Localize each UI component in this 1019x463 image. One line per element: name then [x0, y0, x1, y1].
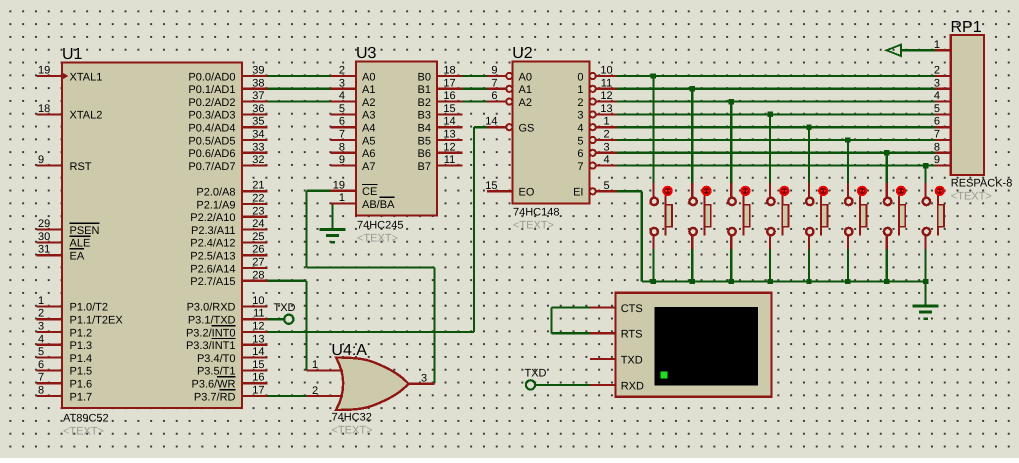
svg-text:22: 22 [252, 193, 264, 205]
U2 pin 6 A2 [487, 90, 532, 109]
svg-text:10: 10 [252, 295, 264, 307]
push button 7 [884, 183, 906, 249]
RP1 pin 5 [934, 103, 951, 115]
svg-text:P2.7/A15: P2.7/A15 [190, 276, 235, 288]
wire column from row 3 down to button 4 [769, 114, 771, 183]
U2 pin 15 EO [485, 180, 535, 199]
svg-text:4: 4 [38, 333, 44, 345]
push button 1 [651, 183, 673, 249]
U1 pin 2 P1.1/T2EX [36, 308, 123, 327]
U1 pin 15 P3.5/T1 [197, 359, 268, 378]
svg-text:P1.0/T2: P1.0/T2 [70, 302, 109, 314]
push button 2 [689, 183, 711, 249]
svg-text:P1.3: P1.3 [70, 340, 93, 352]
svg-text:33: 33 [252, 141, 264, 153]
svg-text:P2.4/A12: P2.4/A12 [190, 238, 235, 250]
wire down to U4 pin 3 [433, 268, 435, 384]
U1 pin 39 P0.0/AD0 [188, 65, 267, 84]
svg-text:P0.6/AD6: P0.6/AD6 [188, 148, 235, 160]
U1 pin 17 P3.7/RD [194, 385, 268, 404]
svg-text:5: 5 [38, 346, 44, 358]
svg-text:P1.2: P1.2 [70, 327, 93, 339]
svg-text:P0.1/AD1: P0.1/AD1 [188, 84, 235, 96]
svg-text:XTAL1: XTAL1 [70, 71, 103, 83]
svg-text:11: 11 [601, 77, 612, 89]
resistor pack RP1 RESPACK-8 body [951, 35, 984, 175]
junction on row 0 at column 1 [651, 73, 656, 78]
svg-text:U3: U3 [356, 45, 377, 62]
terminal TXD near U1 [274, 302, 296, 324]
U3 pin 18 B0 [418, 65, 463, 84]
wire CE vertical down [305, 191, 307, 268]
U3 pin 12 B6 [418, 141, 463, 160]
svg-text:5: 5 [603, 180, 609, 192]
U2 pin 11 input 1 [577, 77, 616, 96]
svg-text:23: 23 [252, 205, 264, 217]
U3 pin 17 B1 [418, 77, 463, 96]
wire ground bus under buttons [642, 280, 926, 282]
virtual terminal cursor [661, 372, 668, 379]
svg-text:7: 7 [38, 372, 44, 384]
junction on row 1 at column 2 [690, 86, 695, 91]
svg-text:3: 3 [421, 372, 427, 384]
svg-text:35: 35 [252, 116, 264, 128]
svg-text:A0: A0 [519, 71, 532, 83]
wire terminal TXD to terminal RXD of serial terminal [535, 384, 590, 386]
junction on bus at column 3 [729, 279, 734, 284]
svg-text:21: 21 [252, 180, 264, 192]
svg-text:8: 8 [339, 141, 345, 153]
U1 pin 35 P0.4/AD4 [188, 116, 267, 135]
svg-text:7: 7 [491, 77, 497, 89]
svg-text:EA: EA [70, 251, 85, 263]
U3 pin 11 B7 [418, 154, 463, 173]
svg-text:6: 6 [339, 116, 345, 128]
U1 pin 10 P3.0/RXD [187, 295, 268, 314]
svg-text:1: 1 [339, 192, 345, 204]
U3 pin 2 A0 [331, 65, 376, 84]
svg-text:4: 4 [934, 90, 940, 102]
svg-text:P2.0/A8: P2.0/A8 [196, 187, 235, 199]
svg-text:A4: A4 [362, 123, 375, 135]
svg-text:4: 4 [603, 154, 609, 166]
wire column from row 7 down to button 8 [924, 166, 926, 183]
svg-text:U1: U1 [62, 46, 83, 63]
svg-text:P3.7/RD: P3.7/RD [194, 391, 236, 403]
wire column from row 4 down to button 5 [808, 127, 810, 183]
svg-text:0: 0 [577, 71, 583, 83]
wire U2 output 6 to RP1 pin 8 [617, 152, 936, 154]
svg-text:P2.5/A13: P2.5/A13 [190, 251, 235, 263]
svg-text:13: 13 [252, 333, 264, 345]
svg-text:B5: B5 [418, 135, 431, 147]
U2 pin 5 EI [573, 180, 616, 199]
svg-text:5: 5 [339, 103, 345, 115]
svg-text:14: 14 [485, 116, 497, 128]
virtual terminal pin CTS [590, 303, 643, 315]
wire U3 CE to U4 output: CE left segment [306, 190, 331, 192]
svg-text:P3.4/T0: P3.4/T0 [197, 353, 236, 365]
push button 4 [767, 183, 789, 249]
U1 pin 7 P1.6 [36, 372, 92, 391]
U1 pin 38 P0.1/AD1 [188, 77, 267, 96]
svg-text:A1: A1 [519, 84, 532, 96]
svg-text:P2.3/A11: P2.3/A11 [191, 225, 235, 237]
svg-text:8: 8 [38, 385, 44, 397]
push button 3 [728, 183, 750, 249]
U1 pin 31 EA [36, 244, 84, 263]
svg-text:3: 3 [577, 110, 583, 122]
svg-text:A1: A1 [362, 84, 375, 96]
RP1 pin 8 [934, 141, 951, 153]
svg-text:P3.3/INT1: P3.3/INT1 [186, 340, 236, 352]
svg-text:U4:A: U4:A [331, 342, 367, 359]
svg-text:6: 6 [934, 116, 940, 128]
U2 pin 12 input 2 [577, 90, 616, 109]
svg-text:10: 10 [600, 65, 612, 77]
svg-text:U2: U2 [512, 45, 533, 62]
svg-text:18: 18 [443, 65, 455, 77]
svg-text:11: 11 [253, 308, 264, 320]
svg-text:P0.4/AD4: P0.4/AD4 [188, 123, 235, 135]
wire U2 EI to bus [617, 190, 642, 192]
svg-text:1: 1 [934, 39, 940, 51]
svg-text:XTAL2: XTAL2 [70, 110, 103, 122]
svg-text:31: 31 [38, 244, 50, 256]
wire U2 output 3 to RP1 pin 5 [617, 113, 936, 115]
junction on row 7 at column 8 [923, 163, 928, 168]
svg-text:GS: GS [519, 123, 535, 135]
svg-text:9: 9 [934, 154, 940, 166]
U1 pin 36 P0.3/AD3 [188, 103, 267, 122]
svg-text:74HC32: 74HC32 [332, 412, 372, 424]
svg-text:3: 3 [934, 77, 940, 89]
svg-text:2: 2 [312, 385, 318, 397]
svg-text:13: 13 [600, 103, 612, 115]
RP1 pin 9 [934, 154, 951, 166]
svg-text:P0.3/AD3: P0.3/AD3 [188, 110, 235, 122]
svg-text:7: 7 [577, 161, 583, 173]
wire button 6 bottom to bus [847, 249, 849, 282]
wire column from row 2 down to button 3 [730, 102, 732, 183]
svg-text:CE: CE [362, 186, 377, 198]
svg-text:8: 8 [934, 141, 940, 153]
wire column from row 6 down to button 7 [886, 153, 888, 183]
U1 pin 16 P3.6/WR [191, 372, 267, 391]
wire U2 output 5 to RP1 pin 7 [617, 139, 936, 141]
svg-text:5: 5 [934, 103, 940, 115]
svg-text:RTS: RTS [621, 329, 643, 341]
wire U2 output 2 to RP1 pin 4 [617, 100, 936, 102]
U3 pin 1 AB/BA [331, 192, 395, 211]
wire U1 P3.7/RD to U4 pin 2 [268, 395, 307, 397]
U1 pin 29 PSEN [36, 218, 99, 237]
svg-text:1: 1 [38, 295, 44, 307]
svg-text:2: 2 [577, 97, 583, 109]
wire RP1 pin1 to input arrow terminal [901, 49, 936, 51]
wire U1 P3.2/INT0 to U2 GS: horizontal [268, 331, 474, 333]
svg-text:15: 15 [485, 180, 497, 192]
svg-text:B7: B7 [418, 161, 431, 173]
svg-text:24: 24 [252, 218, 264, 230]
svg-text:3: 3 [38, 321, 44, 333]
svg-text:B1: B1 [418, 84, 431, 96]
wire button 1 bottom to bus [652, 249, 654, 282]
svg-text:A2: A2 [519, 97, 532, 109]
svg-text:P2.1/A9: P2.1/A9 [196, 199, 235, 211]
svg-text:15: 15 [443, 103, 455, 115]
svg-text:RESPACK-8: RESPACK-8 [951, 178, 1013, 190]
wire bus to right ground [924, 282, 926, 306]
junction on row 5 at column 6 [845, 137, 850, 142]
RP1 pin 4 [934, 90, 951, 102]
svg-text:74HC148: 74HC148 [513, 207, 559, 219]
U4 pin 1 [306, 359, 343, 371]
svg-text:32: 32 [252, 154, 264, 166]
svg-text:7: 7 [339, 129, 345, 141]
wire button 8 bottom to bus [924, 249, 926, 282]
U1 pin 21 P2.0/A8 [196, 180, 267, 199]
svg-text:19: 19 [38, 65, 50, 77]
svg-text:<TEXT>: <TEXT> [357, 233, 398, 245]
svg-text:34: 34 [252, 129, 264, 141]
U2 pin 10 input 0 [577, 65, 616, 84]
svg-text:AT89C52: AT89C52 [63, 413, 109, 425]
U3 pin 19 CE [331, 179, 378, 198]
svg-text:A7: A7 [362, 161, 375, 173]
U1 pin 1 P1.0/T2 [36, 295, 108, 314]
RP1 pin 1 common [934, 39, 951, 51]
svg-text:74HC245: 74HC245 [357, 220, 403, 232]
wire button 3 bottom to bus [730, 249, 732, 282]
U3 pin 13 B5 [418, 129, 463, 148]
svg-text:<TEXT>: <TEXT> [513, 220, 554, 232]
wire U3 B1 to U2 A1 [463, 88, 488, 90]
U4 pin 3 output [409, 372, 435, 384]
svg-text:A6: A6 [362, 148, 375, 160]
U2 pin 1 input 4 [577, 116, 616, 135]
svg-text:1: 1 [603, 116, 609, 128]
svg-text:5: 5 [577, 135, 583, 147]
U1 pin 33 P0.6/AD6 [188, 141, 267, 160]
wire U3 B0 to U2 A0 [463, 75, 488, 77]
svg-text:13: 13 [443, 129, 455, 141]
input arrow terminal at RP1 pin 1 [887, 45, 902, 56]
push button 5 [806, 183, 828, 249]
U1 pin 32 P0.7/AD7 [188, 154, 267, 173]
wire P0.2/AD2 to U3 A2 [268, 100, 331, 102]
virtual terminal pin TXD [590, 355, 643, 367]
svg-text:ALE: ALE [70, 238, 91, 250]
svg-text:<TEXT>: <TEXT> [951, 191, 992, 203]
U2 pin 3 input 6 [577, 141, 616, 160]
U1 pin 12 P3.2/INT0 [186, 321, 268, 340]
svg-text:B0: B0 [418, 71, 431, 83]
wire column from row 1 down to button 2 [691, 89, 693, 183]
svg-text:30: 30 [38, 231, 50, 243]
svg-text:39: 39 [252, 65, 264, 77]
svg-text:<TEXT>: <TEXT> [63, 426, 104, 438]
svg-text:12: 12 [443, 141, 455, 153]
svg-text:RP1: RP1 [951, 19, 982, 36]
svg-text:P1.7: P1.7 [70, 391, 93, 403]
junction on bus at column 2 [690, 279, 695, 284]
U3 pin 9 A7 [331, 154, 376, 173]
U3 pin 3 A1 [331, 77, 376, 96]
wire vertical up to GS [473, 127, 475, 332]
U1 pin 25 P2.4/A12 [190, 231, 267, 250]
svg-text:16: 16 [252, 372, 264, 384]
U1 pin 13 P3.3/INT1 [186, 333, 268, 352]
svg-text:B4: B4 [418, 123, 431, 135]
svg-text:RST: RST [70, 161, 92, 173]
virtual terminal body [616, 293, 772, 397]
svg-text:2: 2 [603, 129, 609, 141]
junction on bus at column 5 [806, 279, 811, 284]
svg-text:P1.1/T2EX: P1.1/T2EX [70, 315, 124, 327]
svg-text:19: 19 [333, 179, 345, 191]
virtual terminal screen [655, 307, 759, 386]
svg-text:TXD: TXD [274, 302, 296, 314]
wire U1 P2.7/A15 to U4 pin 1: horizontal [268, 280, 307, 282]
svg-text:17: 17 [252, 385, 264, 397]
svg-text:P1.6: P1.6 [70, 379, 93, 391]
junction on row 4 at column 5 [806, 125, 811, 130]
chip U3 74HC245 body [356, 62, 437, 216]
wire GS left segment [474, 126, 487, 128]
U1 pin 19 XTAL1 [36, 65, 102, 84]
wire vertical down to OR input 1 [305, 281, 307, 371]
svg-text:P3.0/RXD: P3.0/RXD [187, 302, 236, 314]
U1 pin 22 P2.1/A9 [196, 193, 267, 212]
svg-text:P3.6/WR: P3.6/WR [191, 379, 235, 391]
or-gate U4:A 74HC32 body [336, 358, 409, 411]
U2 pin 2 input 5 [577, 129, 616, 148]
wire column from row 0 down to button 1 [652, 76, 654, 183]
junction on bus at column 4 [767, 279, 772, 284]
push button 6 [845, 183, 867, 249]
svg-text:1: 1 [577, 84, 583, 96]
U3 pin 5 A3 [331, 103, 376, 122]
svg-text:A0: A0 [362, 71, 375, 83]
svg-text:TXD: TXD [621, 355, 643, 367]
svg-text:6: 6 [38, 359, 44, 371]
svg-text:<TEXT>: <TEXT> [332, 425, 373, 437]
svg-text:16: 16 [443, 90, 455, 102]
wire P0.1/AD1 to U3 A1 [268, 88, 331, 90]
U1 pin 4 P1.3 [36, 333, 92, 352]
virtual terminal pin RTS [590, 329, 643, 341]
wire CTS to RTS loopback [552, 306, 591, 308]
svg-text:14: 14 [443, 116, 455, 128]
svg-text:A2: A2 [362, 97, 375, 109]
svg-text:P2.6/A14: P2.6/A14 [190, 263, 235, 275]
wire button 4 bottom to bus [769, 249, 771, 282]
svg-text:26: 26 [252, 244, 264, 256]
ground at button bus [913, 305, 939, 308]
U1 pin 9 RST [36, 154, 91, 173]
U3 pin 16 B2 [418, 90, 463, 109]
svg-text:P0.7/AD7: P0.7/AD7 [188, 161, 235, 173]
svg-text:4: 4 [339, 90, 345, 102]
svg-text:A3: A3 [362, 110, 375, 122]
svg-text:A5: A5 [362, 135, 375, 147]
svg-text:P3.5/T1: P3.5/T1 [197, 366, 236, 378]
svg-text:6: 6 [577, 148, 583, 160]
chip U1 AT89C52 body [62, 63, 242, 409]
U1 pin 14 P3.4/T0 [197, 346, 268, 365]
svg-text:P1.4: P1.4 [70, 353, 93, 365]
U4 pin 2 [306, 385, 343, 397]
svg-text:11: 11 [444, 154, 455, 166]
ground at U3 AB/BA [320, 228, 346, 231]
svg-text:9: 9 [339, 154, 345, 166]
U1 pin 30 ALE [36, 231, 90, 250]
svg-text:2: 2 [934, 65, 940, 77]
svg-text:17: 17 [443, 77, 455, 89]
wire U2 output 0 to RP1 pin 2 [617, 75, 936, 77]
wire button 2 bottom to bus [691, 249, 693, 282]
wire U3 pin1 AB/BA to ground [332, 204, 334, 229]
wire CE horizontal to x434 [306, 267, 434, 269]
U1 XTAL1 clock arrow [63, 73, 68, 79]
svg-text:EO: EO [519, 187, 535, 199]
wire column from row 5 down to button 6 [847, 140, 849, 183]
virtual terminal pin RXD [590, 380, 644, 392]
U2 pin 9 A0 [487, 65, 532, 84]
U2 pin 14 GS [485, 116, 534, 135]
svg-text:9: 9 [491, 65, 497, 77]
U2 pin 13 input 3 [577, 103, 616, 122]
junction on bus at column 7 [884, 279, 889, 284]
svg-text:7: 7 [934, 129, 940, 141]
svg-text:P0.5/AD5: P0.5/AD5 [188, 135, 235, 147]
svg-text:12: 12 [600, 90, 612, 102]
svg-text:B2: B2 [418, 97, 431, 109]
svg-text:3: 3 [603, 141, 609, 153]
U1 pin 26 P2.5/A13 [190, 244, 267, 263]
svg-text:15: 15 [252, 359, 264, 371]
wire button 7 bottom to bus [886, 249, 888, 282]
svg-text:25: 25 [252, 231, 264, 243]
svg-text:3: 3 [339, 77, 345, 89]
svg-text:AB/BA: AB/BA [362, 199, 395, 211]
junction on row 6 at column 7 [884, 150, 889, 155]
U1 pin 24 P2.3/A11 [191, 218, 268, 237]
U1 pin 23 P2.2/A10 [190, 205, 267, 224]
push button 8 [923, 183, 945, 249]
U1 pin 34 P0.5/AD5 [188, 129, 267, 148]
junction on bus at column 1 [651, 279, 656, 284]
svg-text:6: 6 [491, 90, 497, 102]
svg-text:P1.5: P1.5 [70, 366, 93, 378]
chip U2 74HC148 body [513, 62, 590, 204]
wire U2 output 4 to RP1 pin 6 [617, 126, 936, 128]
svg-text:37: 37 [252, 90, 264, 102]
wire U1 P3.1/TXD to terminal TXD [268, 318, 284, 320]
U1 pin 28 P2.7/A15 [190, 269, 267, 288]
svg-text:14: 14 [252, 346, 264, 358]
wire U3 B2 to U2 A2 [463, 100, 488, 102]
U1 pin 6 P1.5 [36, 359, 92, 378]
junction on row 3 at column 4 [767, 112, 772, 117]
svg-text:P2.2/A10: P2.2/A10 [190, 212, 235, 224]
svg-text:27: 27 [252, 257, 264, 269]
U3 pin 8 A6 [331, 141, 376, 160]
U3 pin 7 A5 [331, 129, 376, 148]
U1 pin 3 P1.2 [36, 321, 92, 340]
U2 pin 4 input 7 [577, 154, 616, 173]
